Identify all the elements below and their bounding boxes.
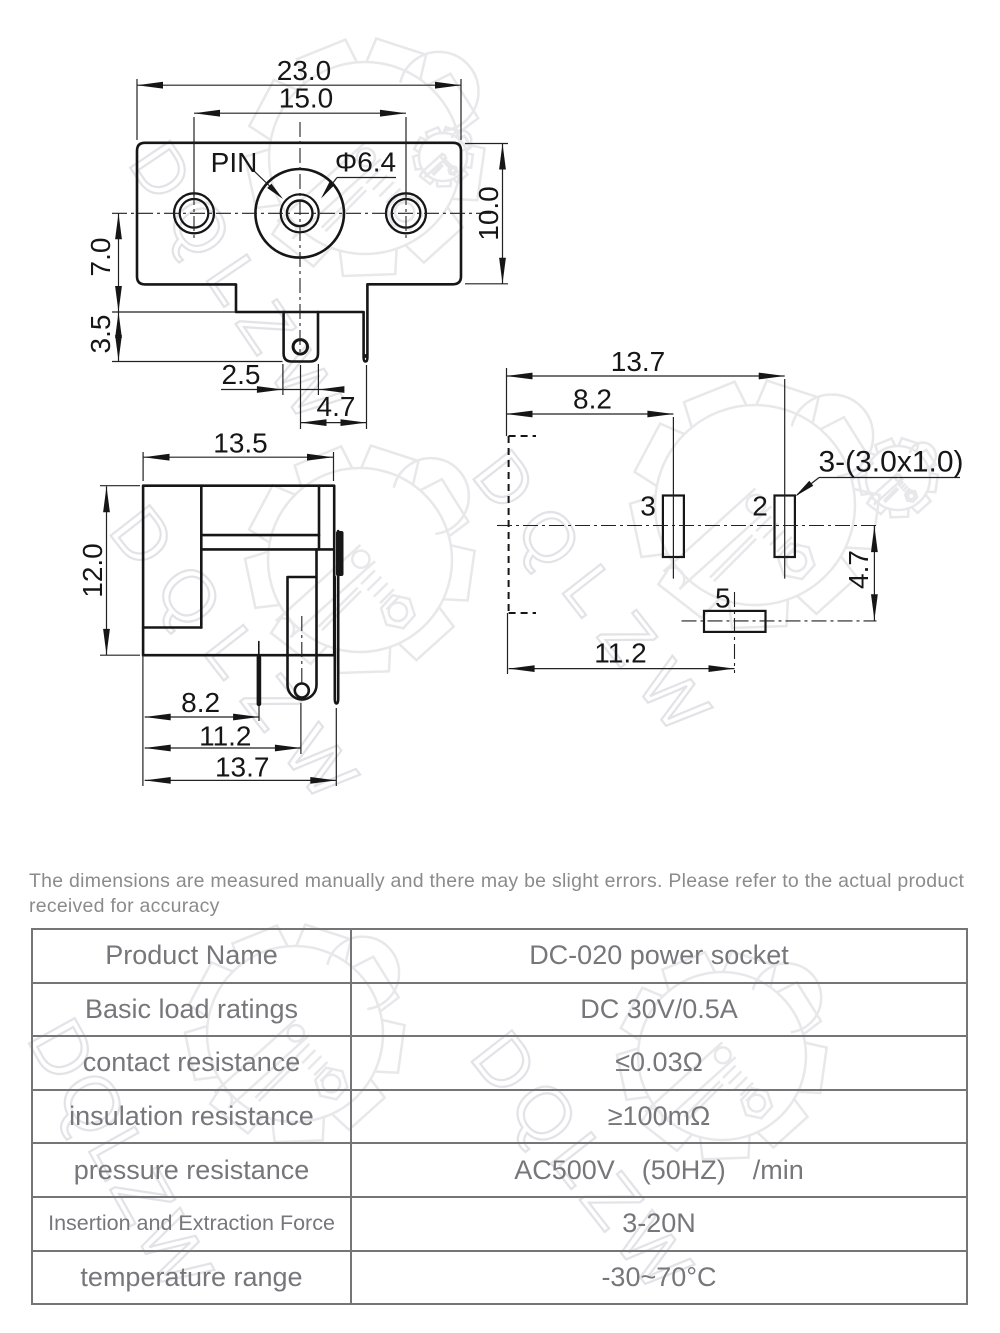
svg-text:5: 5 bbox=[715, 582, 731, 613]
svg-text:4.7: 4.7 bbox=[317, 391, 356, 422]
svg-text:13.7: 13.7 bbox=[611, 346, 666, 377]
svg-text:3-(3.0x1.0): 3-(3.0x1.0) bbox=[818, 446, 963, 479]
svg-text:13.5: 13.5 bbox=[213, 427, 268, 458]
svg-text:13.7: 13.7 bbox=[215, 751, 270, 782]
svg-text:4.7: 4.7 bbox=[843, 550, 874, 589]
svg-text:11.2: 11.2 bbox=[594, 637, 646, 668]
svg-text:3: 3 bbox=[640, 490, 656, 521]
svg-text:12.0: 12.0 bbox=[77, 543, 108, 598]
svg-text:15.0: 15.0 bbox=[279, 82, 334, 113]
svg-text:7.0: 7.0 bbox=[85, 238, 116, 277]
svg-text:PIN: PIN bbox=[211, 147, 258, 178]
svg-text:10.0: 10.0 bbox=[473, 186, 504, 241]
svg-text:11.2: 11.2 bbox=[199, 720, 251, 751]
svg-text:23.0: 23.0 bbox=[277, 55, 332, 86]
svg-text:8.2: 8.2 bbox=[181, 687, 220, 718]
svg-text:2: 2 bbox=[752, 490, 768, 521]
svg-text:8.2: 8.2 bbox=[573, 383, 612, 414]
svg-text:Φ6.4: Φ6.4 bbox=[335, 146, 396, 177]
svg-text:2.5: 2.5 bbox=[222, 359, 261, 390]
svg-text:3.5: 3.5 bbox=[85, 315, 116, 354]
svg-text:DQLZW: DQLZW bbox=[458, 436, 737, 762]
